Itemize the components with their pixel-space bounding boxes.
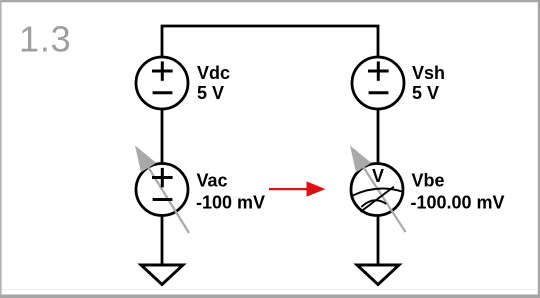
voltage source Vsh (352, 57, 404, 109)
wire meter bottom to right ground (377, 215, 380, 265)
ground left (141, 265, 183, 285)
red arrow (269, 181, 326, 196)
svg-text:Vbe: Vbe (412, 171, 445, 191)
svg-text:Vdc: Vdc (197, 63, 230, 83)
meter scale arc outer (353, 189, 402, 196)
meter scale arc inner (361, 200, 386, 207)
frame border bottom bar (0, 295, 540, 298)
voltmeter Vbe circle (351, 164, 403, 216)
variable arrow over Vac (135, 146, 189, 234)
svg-text:Vac: Vac (197, 171, 228, 191)
svg-text:V: V (372, 166, 384, 186)
svg-text:5 V: 5 V (412, 83, 439, 103)
voltage source Vdc (136, 57, 188, 109)
variable arrow over meter (350, 146, 406, 233)
ground right (357, 265, 399, 285)
frame border top (0, 0, 540, 2)
wire Vsh bottom to meter top (377, 109, 380, 164)
svg-text:-100.00 mV: -100.00 mV (411, 193, 505, 213)
frame border right (538, 0, 540, 298)
Vac plus sign (152, 168, 173, 187)
svg-text:-100 mV: -100 mV (196, 193, 265, 213)
svg-text:1.3: 1.3 (19, 19, 71, 60)
ac source Vac circle (136, 164, 188, 216)
wire Vac bottom to left ground (161, 215, 164, 265)
svg-text:5 V: 5 V (197, 83, 224, 103)
wire Vdc bottom to Vac top (161, 109, 164, 164)
meter needle (361, 187, 394, 212)
Vac minus sign (153, 198, 173, 201)
frame border left (0, 0, 2, 298)
wire top: Vdc top to Vsh top (162, 26, 378, 57)
bottom shadow line (2, 289, 538, 291)
svg-text:Vsh: Vsh (412, 63, 445, 83)
